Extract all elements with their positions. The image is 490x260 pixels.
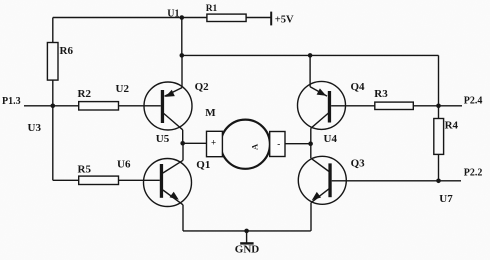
svg-text:+: +	[211, 137, 216, 147]
wire +5V rail down to Q2 emitter	[181, 55, 183, 87]
svg-text:U3: U3	[28, 122, 42, 134]
junction dot P2.4 / R4 top	[436, 104, 441, 109]
wire node U5 down to Q1 collector	[182, 143, 184, 160]
wire left column top (rail to R6)	[52, 18, 54, 43]
junction dot second rail left	[180, 53, 185, 58]
svg-text:Q3: Q3	[351, 158, 366, 170]
wire Q2 collector to node U5	[182, 130, 184, 144]
svg-text:-: -	[277, 139, 280, 149]
wire Q1 emitter down to bottom rail	[182, 205, 184, 231]
resistor R4	[434, 119, 459, 155]
wire R2 to Q2 base	[119, 105, 161, 107]
svg-text:Q2: Q2	[195, 81, 210, 93]
ground GND	[235, 231, 259, 256]
svg-text:A: A	[250, 143, 260, 150]
power +5V terminal	[271, 12, 294, 26]
wire R3 to P2.4	[413, 105, 462, 107]
svg-text:P2.4: P2.4	[464, 95, 483, 106]
resistor R5	[78, 164, 119, 185]
wire Q4 base to R3	[331, 105, 375, 107]
wire second rail (horizontal)	[182, 54, 439, 56]
wire second rail right side down to P2.4 line	[438, 55, 440, 105]
motor M	[207, 120, 286, 169]
svg-text:U1: U1	[167, 8, 179, 19]
node U5 junction dot	[180, 141, 185, 146]
svg-text:GND: GND	[235, 244, 259, 256]
node U4 junction dot	[308, 141, 313, 146]
resistor R3	[374, 88, 413, 110]
junction dot second rail at Q4 emitter	[308, 53, 313, 58]
wire motor right terminal to node U4	[285, 143, 311, 145]
svg-text:Q4: Q4	[351, 81, 366, 93]
svg-text:P1.3: P1.3	[2, 96, 21, 107]
wire bottom rail	[183, 230, 311, 232]
junction dot bottom rail at GND	[244, 229, 249, 234]
resistor R1	[206, 4, 246, 22]
svg-text:R1: R1	[206, 4, 218, 14]
resistor R6	[47, 43, 73, 81]
wire left column R6 down through U3 node to R5 row	[52, 80, 54, 180]
svg-text:M: M	[205, 107, 216, 119]
wire Q3 base line to P2.2	[332, 180, 461, 182]
wire top rail (U1 node to R1)	[53, 17, 207, 19]
svg-text:R5: R5	[78, 164, 92, 176]
wire node U4 down to Q3 collector	[310, 144, 312, 159]
wire Q4 collector down to node U4	[310, 128, 312, 143]
node U7 junction dot	[436, 179, 441, 184]
svg-text:U5: U5	[156, 133, 170, 145]
svg-text:U7: U7	[439, 193, 453, 205]
wire U3 column to R5	[53, 179, 79, 181]
wire R4 down to node U7	[438, 154, 440, 180]
wire U3 node to R2	[53, 105, 79, 107]
svg-text:U2: U2	[116, 83, 130, 95]
wire node U5 to motor left terminal	[183, 142, 207, 144]
wire R1 to +5V terminal	[246, 17, 271, 19]
wire R5 to Q1 base	[119, 179, 160, 181]
transistor Q2	[144, 82, 192, 130]
svg-text:R4: R4	[445, 120, 459, 132]
wire Q3 emitter down to bottom rail	[310, 203, 312, 231]
svg-text:U6: U6	[117, 159, 131, 171]
transistor Q3	[298, 156, 346, 204]
wire P1.3 lead	[24, 105, 53, 107]
svg-text:R6: R6	[60, 45, 74, 57]
transistor Q1	[144, 159, 192, 207]
wire junction down to R4	[438, 106, 440, 119]
node U3 junction dot	[51, 104, 56, 109]
svg-text:R2: R2	[78, 88, 92, 100]
svg-text:P2.2: P2.2	[464, 168, 483, 179]
svg-text:R3: R3	[374, 88, 388, 100]
wire second rail down to Q4 emitter	[309, 55, 311, 86]
svg-text:Q1: Q1	[196, 159, 210, 171]
resistor R2	[78, 88, 119, 110]
svg-text:U4: U4	[324, 133, 338, 145]
svg-text:+5V: +5V	[275, 15, 294, 26]
transistor Q4	[298, 81, 346, 129]
node U1 junction dot	[180, 15, 185, 20]
wire U1 node down to second rail	[181, 18, 183, 56]
